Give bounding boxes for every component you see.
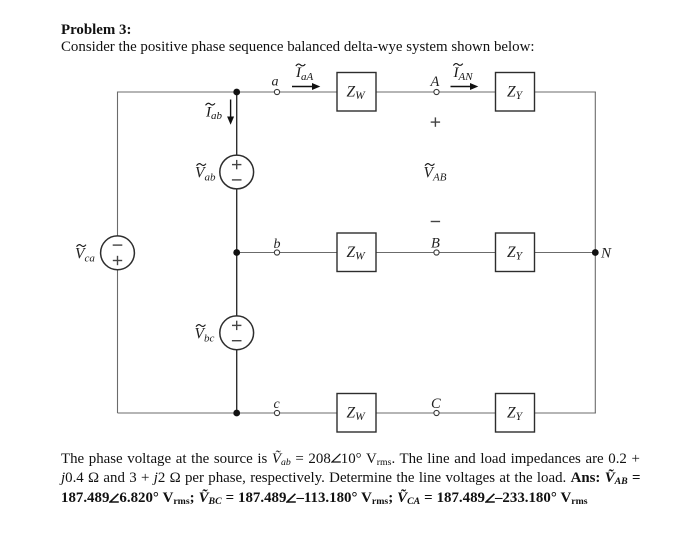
wire: row b, node b to ZW: [277, 252, 337, 254]
current label IaA: [295, 64, 314, 83]
wire: row b, junction to node b: [237, 252, 277, 254]
wire: top row a, node A to ZY: [437, 91, 496, 93]
source Vbc: [195, 316, 254, 350]
load voltage VAB plus sign: [431, 117, 440, 126]
load voltage VAB minus sign: [431, 221, 440, 223]
current label Iab: [205, 103, 223, 122]
impedance ZY line c: [496, 394, 535, 433]
current arrow IAN: [451, 83, 479, 90]
svg-text:Vbc: Vbc: [195, 326, 215, 345]
svg-text:b: b: [274, 237, 281, 252]
wire: middle branch, row b junction to Vbc: [236, 253, 238, 317]
current arrow Iab: [227, 100, 234, 125]
junction dot row a: [233, 89, 240, 96]
heading text: [61, 22, 534, 57]
source Vab: [195, 155, 254, 189]
node C terminal: [434, 410, 439, 415]
wire: left vertical, corner to Vca: [117, 92, 119, 236]
svg-text:IAN: IAN: [453, 65, 474, 83]
wire: top row a, corner to node a: [118, 91, 278, 93]
wire: row b, node B to ZY: [437, 252, 496, 254]
node c terminal: [274, 410, 279, 415]
impedance ZW line b: [337, 233, 376, 272]
junction dot row b: [233, 249, 240, 256]
wire: row c, node c to ZW: [277, 412, 337, 414]
junction dot row c: [233, 410, 240, 417]
current label IAN: [453, 64, 474, 83]
wire: row c, ZY to right corner: [535, 412, 596, 414]
svg-text:Iab: Iab: [205, 105, 223, 123]
wire: right vertical: [594, 92, 596, 413]
wire: row b, ZY to node N: [535, 252, 595, 254]
wire: bottom row c, corner to node c: [118, 412, 278, 414]
svg-text:A: A: [430, 74, 440, 90]
wire: top row a, node a to ZW: [277, 91, 337, 93]
wire: middle branch, row a junction to Vab: [236, 92, 238, 156]
wire: middle branch, Vbc to row c junction: [236, 350, 238, 413]
current arrow IaA: [292, 83, 320, 90]
svg-text:a: a: [272, 75, 279, 90]
wire: middle branch, Vab to row b junction: [236, 189, 238, 253]
wire: row b, ZW to node B: [376, 252, 437, 254]
svg-text:Vab: Vab: [195, 165, 216, 184]
node B terminal: [434, 250, 439, 255]
wire: row c, ZW to node C: [376, 412, 437, 414]
wire: row c, node C to ZY: [437, 412, 496, 414]
svg-text:C: C: [431, 396, 441, 412]
impedance ZW line a: [337, 73, 376, 112]
source Vca: [75, 236, 134, 270]
impedance ZW line c: [337, 394, 376, 433]
node A terminal: [434, 89, 439, 94]
svg-text:B: B: [431, 236, 440, 252]
node b terminal: [274, 250, 279, 255]
svg-text:IaA: IaA: [295, 65, 314, 83]
svg-text:VAB: VAB: [424, 165, 447, 184]
description paragraph: [61, 450, 651, 509]
load voltage VAB label: [424, 164, 447, 184]
impedance ZY line b: [496, 233, 535, 272]
node a terminal: [274, 89, 279, 94]
svg-text:Vca: Vca: [75, 246, 95, 265]
impedance ZY line a: [496, 73, 535, 112]
wire: top row a, ZY to right corner: [535, 91, 596, 93]
svg-text:N: N: [600, 246, 612, 262]
node N junction dot: [592, 249, 599, 256]
wire: top row a, ZW to node A: [376, 91, 437, 93]
wire: left vertical, Vca to bottom corner: [117, 270, 119, 413]
svg-text:c: c: [274, 397, 281, 412]
